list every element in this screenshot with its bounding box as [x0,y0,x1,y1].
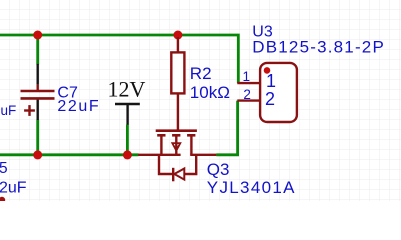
junction on bottom rail at C7 [33,150,42,159]
capacitor C7 pin top [37,64,39,85]
drain pin line [190,154,216,156]
gate bar [156,129,197,132]
pin 2 stub [237,99,260,101]
wire 12V stem [126,125,129,155]
body diode triangle [174,169,184,180]
junction on top rail at C7 [33,31,42,40]
svg-text:1: 1 [242,69,250,84]
transistor Q3 PMOS [138,131,216,182]
svg-text:22uF: 22uF [57,98,98,115]
svg-text:12V: 12V [108,77,146,102]
svg-text:2: 2 [243,87,251,102]
bulk arrow [172,143,180,151]
junction on top rail at R2 [173,31,182,40]
source stub [160,135,162,155]
junction fragment bottom-left corner [0,197,5,203]
pin 1 stub [237,82,260,84]
capacitor C7 [21,84,55,116]
power port 12V [115,104,140,125]
drain stub [190,135,192,155]
connector U3 [237,63,297,122]
resistor R2 [171,37,184,130]
pin1 indicator dot [264,67,271,74]
channel segments [157,134,165,137]
wire drain to pin2 [216,101,237,155]
wire 12V top rail [0,35,238,83]
source pin line [138,154,180,156]
junction on bottom rail at 12V stem [123,150,132,159]
svg-text:Q3: Q3 [207,160,230,179]
svg-text:2: 2 [265,89,275,109]
wire C7 top [36,35,39,65]
svg-text:2uF: 2uF [0,179,27,196]
wire C7 bottom [36,120,39,155]
svg-text:5: 5 [0,160,8,177]
wire bottom rail [0,153,139,156]
svg-text:R2: R2 [190,64,212,83]
capacitor C7 pin bottom [37,100,39,120]
svg-text:DB125-3.81-2P: DB125-3.81-2P [252,38,383,57]
svg-text:10kΩ: 10kΩ [190,83,230,102]
body diode loop left [159,155,172,174]
body diode cathode bar [172,168,174,182]
body diode loop right [184,155,196,174]
svg-text:uF: uF [1,103,17,118]
bulk stub [175,135,177,155]
body [260,63,297,122]
